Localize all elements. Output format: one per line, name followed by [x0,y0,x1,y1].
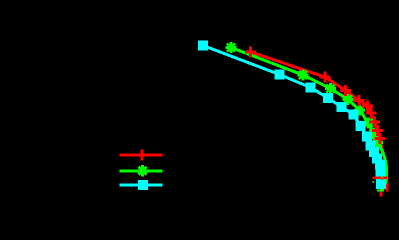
legend marker: red plus [137,150,148,161]
green series polyline [231,48,386,191]
red series polyline [251,52,388,192]
cyan series square markers [198,41,386,189]
legend sample line: cyan series [119,184,162,187]
red series '+' markers [245,47,386,145]
green series '*' markers [226,42,384,148]
legend marker: cyan filled square [138,180,148,190]
red '+' marker overlap bar at curve tail [372,177,387,179]
cyan series polyline [203,46,381,184]
red series end '+' vertical stub [380,191,383,196]
dithered red/green overlap dot on bar [381,177,384,180]
legend marker: green star [137,165,148,176]
green series end star horizontal arm below cyan square [377,189,384,191]
legend sample line: red series [119,154,162,157]
green star tip peeking left of cyan square [372,181,374,183]
legend sample line: green series [119,169,162,172]
